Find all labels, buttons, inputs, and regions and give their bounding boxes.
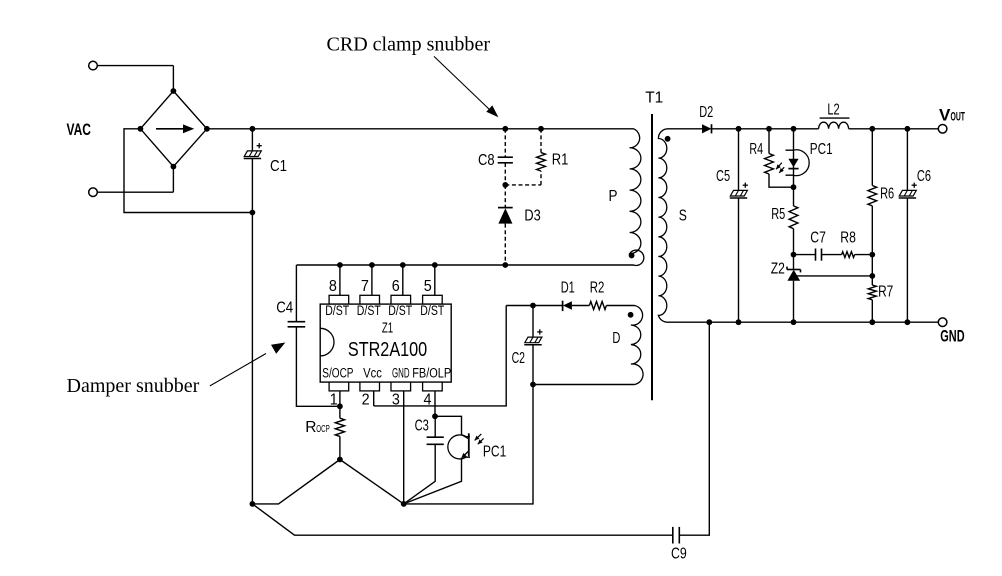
wire R2 to winding D xyxy=(606,305,634,307)
label C6 xyxy=(917,168,931,185)
transformer primary winding P xyxy=(630,129,644,266)
svg-text:C9: C9 xyxy=(671,545,687,562)
wire C4 branch bottom xyxy=(296,327,340,406)
label STR2A100 xyxy=(348,339,427,361)
wire Vcc rail to D1 xyxy=(506,305,562,307)
svg-text:D: D xyxy=(612,330,620,347)
svg-text:PC1: PC1 xyxy=(483,444,506,461)
wire dashed R1 top xyxy=(540,129,542,153)
capacitor C3 xyxy=(427,416,444,444)
svg-text:OUT: OUT xyxy=(951,111,966,123)
wire left bulk rail down xyxy=(251,213,253,504)
label S xyxy=(679,208,687,225)
wire R7 top stub xyxy=(871,276,873,285)
terminal VOUT xyxy=(938,125,947,134)
ic bottom pin boxes xyxy=(329,382,442,391)
wire pin 3 GND stub xyxy=(403,391,405,504)
wire secondary rail L2 to Vout xyxy=(849,128,939,130)
label GND xyxy=(940,327,964,346)
node star ground xyxy=(401,501,407,507)
svg-text:C6: C6 xyxy=(917,168,931,185)
node R4 top junction xyxy=(766,126,772,132)
node snubber mid junction xyxy=(502,182,508,188)
label C7 xyxy=(810,229,826,246)
wire pin 8 stub xyxy=(339,265,341,295)
wire R7 bottom xyxy=(871,300,873,322)
label VOUT xyxy=(939,105,965,124)
svg-text:CRD clamp snubber: CRD clamp snubber xyxy=(327,34,491,55)
svg-text:C4: C4 xyxy=(276,299,293,316)
wire FB to phototransistor collector xyxy=(435,416,462,435)
svg-text:C2: C2 xyxy=(512,350,525,367)
node Z2 ground junction xyxy=(791,319,797,325)
wire AC input neutral xyxy=(89,167,174,197)
label D1 xyxy=(561,279,575,296)
resistor Rocp xyxy=(335,418,344,436)
svg-text:Z2: Z2 xyxy=(771,261,785,278)
transformer auxiliary winding D xyxy=(631,306,643,385)
svg-text:GND: GND xyxy=(940,327,964,346)
label Z1 xyxy=(382,320,393,336)
label D3 xyxy=(524,207,540,224)
svg-text:P: P xyxy=(609,188,618,205)
resistor R8 xyxy=(842,252,855,258)
op-amp U1 top pin boxes xyxy=(329,295,442,304)
wire drain rail xyxy=(296,264,633,266)
svg-text:R: R xyxy=(305,419,316,436)
wire C1 bottom to negative rail xyxy=(251,159,253,213)
wire R8 to divider xyxy=(855,254,873,256)
wire dashed D3 bottom xyxy=(504,224,506,265)
svg-text:D/ST: D/ST xyxy=(388,303,412,318)
label R6 xyxy=(880,186,894,203)
arrow damper annotation xyxy=(210,343,285,386)
pin label GND xyxy=(392,366,410,381)
node C5 top junction xyxy=(736,126,742,132)
wire C9 to secondary ground xyxy=(680,322,710,535)
capacitor C5 xyxy=(730,129,748,322)
resistor R6 xyxy=(868,186,877,206)
pin number 2 xyxy=(362,392,370,409)
wire dashed R1 bottom xyxy=(540,171,542,185)
svg-text:Z1: Z1 xyxy=(382,320,393,336)
resistor R4 xyxy=(765,154,774,175)
svg-text:R8: R8 xyxy=(840,229,856,246)
wire Rocp to star ground diagonal xyxy=(340,460,404,504)
wire pin 7 stub xyxy=(371,265,373,295)
label R1 xyxy=(552,151,569,168)
svg-text:D2: D2 xyxy=(699,104,713,121)
svg-text:PC1: PC1 xyxy=(810,141,833,158)
wire pin 2 Vcc stub xyxy=(373,391,375,406)
node C1 top junction xyxy=(250,126,256,132)
svg-text:R7: R7 xyxy=(878,284,893,301)
capacitor C7 xyxy=(816,249,822,261)
wire secondary top to D2 xyxy=(668,128,702,130)
svg-text:C3: C3 xyxy=(415,417,429,434)
wire C2 bottom xyxy=(532,345,534,385)
wire pin 5 stub xyxy=(434,265,436,295)
svg-text:V: V xyxy=(939,105,951,124)
svg-text:5: 5 xyxy=(424,278,432,295)
pin number 4 xyxy=(424,392,432,409)
node C6 ground junction xyxy=(905,319,911,325)
svg-text:D1: D1 xyxy=(561,279,575,296)
capacitor C2 xyxy=(524,306,542,345)
node bottom left junction xyxy=(250,501,256,507)
node bulk negative junction xyxy=(250,210,256,216)
pin number 7 xyxy=(361,278,369,295)
svg-text:R6: R6 xyxy=(880,186,894,203)
label C5 xyxy=(716,168,730,185)
pin label S/OCP xyxy=(322,366,353,381)
resistor R5 xyxy=(789,206,798,229)
label D2 xyxy=(699,104,713,121)
node D3 drain junction xyxy=(502,262,508,268)
node R5 top junction xyxy=(791,184,797,190)
wire top rail bridge to transformer primary xyxy=(207,128,634,130)
node C2 top junction xyxy=(530,303,536,309)
wire winding D bottom return xyxy=(533,384,635,386)
svg-text:VAC: VAC xyxy=(67,120,92,139)
transformer core xyxy=(651,114,653,400)
inductor L2 xyxy=(819,118,850,129)
node PC1 LED top junction xyxy=(791,126,797,132)
transformer secondary winding S xyxy=(658,129,668,322)
node C9 ground junction xyxy=(706,319,712,325)
svg-text:D3: D3 xyxy=(524,207,540,224)
label C1 xyxy=(270,158,287,175)
wire secondary ground rail xyxy=(668,321,939,323)
svg-text:C7: C7 xyxy=(810,229,826,246)
capacitor C8 xyxy=(498,157,513,163)
svg-text:Damper snubber: Damper snubber xyxy=(67,376,200,397)
pin number 3 xyxy=(392,392,400,409)
label T1 xyxy=(645,89,663,106)
wire R6 bottom xyxy=(871,206,873,255)
svg-text:D/ST: D/ST xyxy=(325,303,349,318)
svg-text:FB/OLP: FB/OLP xyxy=(412,366,451,381)
wire C4 branch top xyxy=(295,265,297,322)
wire Rocp to left node diagonal xyxy=(252,460,340,504)
label R2 xyxy=(590,279,605,296)
label P xyxy=(609,188,618,205)
wire phototransistor emitter to star xyxy=(404,458,462,504)
label C9 xyxy=(671,545,687,562)
diode D2 xyxy=(702,124,712,133)
label Damper snubber xyxy=(67,376,200,397)
svg-text:C8: C8 xyxy=(478,152,495,169)
label C8 xyxy=(478,152,495,169)
pin number 6 xyxy=(392,278,400,295)
svg-text:OCP: OCP xyxy=(316,423,330,435)
node R6 C7 junction xyxy=(869,252,875,258)
node C8 top junction xyxy=(502,126,508,132)
label C2 xyxy=(512,350,525,367)
label Z2 xyxy=(771,261,785,278)
wire R4 top stub xyxy=(768,129,770,154)
wire R6 branch xyxy=(871,129,873,186)
bridge rectifier BD1 xyxy=(138,88,210,169)
label CRD clamp snubber xyxy=(327,34,491,55)
svg-text:8: 8 xyxy=(329,278,337,295)
label R8 xyxy=(840,229,856,246)
label R4 xyxy=(749,141,763,158)
wire Vcc supply line xyxy=(374,306,507,406)
svg-text:R5: R5 xyxy=(771,206,785,223)
svg-text:T1: T1 xyxy=(645,89,663,106)
ic Z1 body xyxy=(320,304,451,382)
wire pin 6 stub xyxy=(402,265,404,295)
wire C7 to R8 xyxy=(822,254,842,256)
terminal GND xyxy=(938,318,947,327)
node R7 top junction xyxy=(869,273,875,279)
label R7 xyxy=(878,284,893,301)
svg-text:S/OCP: S/OCP xyxy=(322,366,353,381)
node secondary phase dot xyxy=(665,136,671,142)
svg-text:C5: C5 xyxy=(716,168,730,185)
wire dashed snubber mid horizontal xyxy=(505,184,541,186)
label PC1 transistor xyxy=(483,444,506,461)
node R1 top junction xyxy=(538,126,544,132)
svg-text:STR2A100: STR2A100 xyxy=(348,339,427,361)
resistor R7 xyxy=(868,285,876,300)
wire divider mid xyxy=(871,255,873,276)
node R7 ground junction xyxy=(869,319,875,325)
wire C3 bottom to star xyxy=(404,444,436,504)
node C6 top junction xyxy=(905,126,911,132)
node pin5 rail junction xyxy=(432,262,438,268)
svg-text:GND: GND xyxy=(392,366,410,381)
label Rocp xyxy=(305,419,330,436)
label D winding xyxy=(612,330,620,347)
label C4 xyxy=(276,299,293,316)
wire secondary rail D2 to L2 xyxy=(712,128,819,130)
node pin1 C4 junction xyxy=(337,403,343,409)
svg-text:D/ST: D/ST xyxy=(357,303,381,318)
resistor R2 xyxy=(589,302,606,310)
pin label D/ST 6 xyxy=(388,303,412,318)
node pin8 rail junction xyxy=(337,262,343,268)
svg-text:2: 2 xyxy=(362,392,370,409)
pin label FB/OLP xyxy=(412,366,451,381)
label VAC xyxy=(67,120,92,139)
node pin6 rail junction xyxy=(400,262,406,268)
node C7 branch junction xyxy=(791,252,797,258)
node R6 top junction xyxy=(869,126,875,132)
node auxiliary phase dot xyxy=(628,312,634,318)
svg-text:R4: R4 xyxy=(749,141,763,158)
capacitor C6 xyxy=(899,129,917,322)
transistor PC1 phototransistor xyxy=(448,433,484,459)
led PC1 photodiode xyxy=(776,129,809,187)
wire pin 1 stub xyxy=(339,391,341,418)
resistor R1 xyxy=(537,153,546,171)
arrow CRD annotation xyxy=(434,56,498,117)
wire bridge negative to bottom node xyxy=(124,129,252,213)
svg-text:R2: R2 xyxy=(590,279,605,296)
wire C7 branch left xyxy=(794,254,816,256)
wire Z2 cathode stub xyxy=(793,255,795,270)
node C2 bottom junction xyxy=(530,382,536,388)
capacitor C9 xyxy=(673,527,680,544)
svg-text:S: S xyxy=(679,208,687,225)
svg-text:R1: R1 xyxy=(552,151,569,168)
pin number 1 xyxy=(330,392,338,409)
label R5 xyxy=(771,206,785,223)
wire R5 bottom xyxy=(793,229,795,255)
svg-text:6: 6 xyxy=(392,278,400,295)
pin label D/ST 7 xyxy=(357,303,381,318)
pin label D/ST 5 xyxy=(420,303,444,318)
wire star to C2 return xyxy=(404,385,533,504)
wire R4 bottom xyxy=(769,174,794,187)
wire Rocp bottom xyxy=(339,436,341,459)
wire AC input live xyxy=(89,61,174,91)
node C5 ground junction xyxy=(736,319,742,325)
diode D3 xyxy=(498,208,513,224)
pin number 5 xyxy=(424,278,432,295)
svg-text:C1: C1 xyxy=(270,158,287,175)
wire dashed D3 top xyxy=(504,185,506,207)
wire dashed C8 bottom xyxy=(504,163,506,185)
svg-text:Vcc: Vcc xyxy=(363,366,382,381)
capacitor C1 xyxy=(244,143,262,158)
wire dashed C8 top xyxy=(504,129,506,157)
svg-text:D/ST: D/ST xyxy=(420,303,444,318)
wire Z2 anode to ground rail xyxy=(793,281,795,323)
capacitor C4 xyxy=(288,322,306,327)
pin label Vcc xyxy=(363,366,382,381)
node primary phase dot xyxy=(629,253,635,259)
node pin7 rail junction xyxy=(369,262,375,268)
svg-text:L2: L2 xyxy=(827,101,839,118)
diode D1 xyxy=(563,301,590,311)
wire bottom left to C9 xyxy=(252,504,672,535)
pin label D/ST 8 xyxy=(325,303,349,318)
label L2 xyxy=(827,101,839,118)
pin number 8 xyxy=(329,278,337,295)
wire R5 top stub xyxy=(793,187,795,206)
wire C1 branch upper xyxy=(251,129,253,151)
svg-text:7: 7 xyxy=(361,278,369,295)
wire pin 4 FB stub xyxy=(434,391,436,416)
label C3 xyxy=(415,417,429,434)
zener Z2 xyxy=(787,267,801,281)
node Rocp bottom junction xyxy=(337,457,343,463)
wire Z2 to R7 tap xyxy=(795,275,873,277)
node FB junction xyxy=(432,413,438,419)
label PC1 led xyxy=(810,141,833,158)
